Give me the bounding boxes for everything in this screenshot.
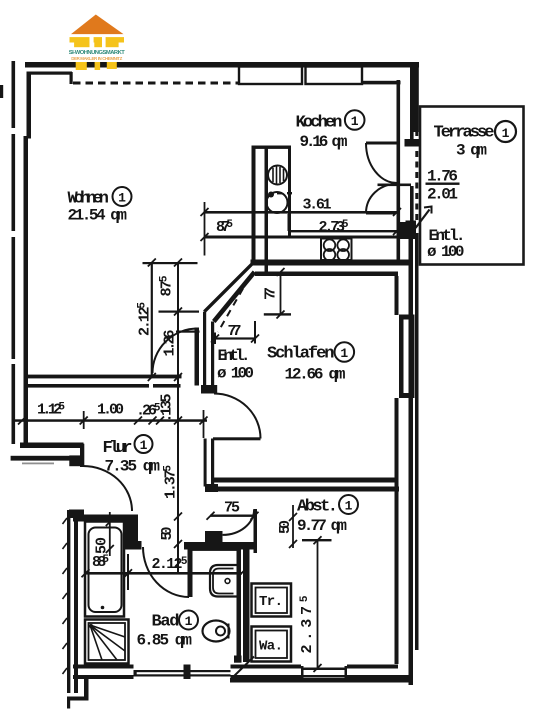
svg-text:9.16 qm: 9.16 qm [300, 133, 348, 151]
svg-text:Flur: Flur [103, 439, 133, 458]
svg-text:Wa.: Wa. [259, 639, 283, 655]
svg-text:Abst.: Abst. [297, 498, 338, 517]
svg-text:ø 100: ø 100 [217, 365, 254, 383]
svg-text:1.26: 1.26 [162, 330, 179, 357]
svg-text:2.125: 2.125 [137, 302, 154, 336]
svg-text:1.125: 1.125 [37, 402, 65, 419]
svg-text:50: 50 [277, 520, 294, 534]
svg-text:2.125: 2.125 [152, 556, 188, 573]
svg-text:50: 50 [94, 537, 111, 554]
svg-text:Kochen: Kochen [296, 114, 343, 133]
svg-text:75: 75 [224, 500, 240, 517]
svg-text:1: 1 [340, 346, 348, 361]
svg-text:77: 77 [228, 323, 242, 340]
svg-text:Entl.: Entl. [218, 347, 251, 365]
svg-text:3 qm: 3 qm [456, 142, 487, 160]
svg-text:SI-WOHNUNGSMARKT: SI-WOHNUNGSMARKT [69, 50, 125, 56]
svg-text:Tr.: Tr. [259, 594, 283, 610]
svg-text:2.735: 2.735 [319, 219, 349, 236]
svg-text:DER MAKLER IN CHEMNITZ: DER MAKLER IN CHEMNITZ [71, 56, 122, 61]
svg-text:2.01: 2.01 [427, 186, 458, 204]
svg-text:Bad: Bad [152, 613, 180, 632]
svg-text:9.77 qm: 9.77 qm [297, 517, 347, 535]
svg-text:1.375: 1.375 [163, 465, 180, 499]
svg-text:50: 50 [159, 527, 176, 541]
svg-text:21.54 qm: 21.54 qm [68, 207, 128, 225]
svg-text:7.35 qm: 7.35 qm [105, 458, 161, 476]
svg-text:77: 77 [263, 287, 280, 300]
svg-text:1.76: 1.76 [427, 168, 458, 186]
svg-text:1: 1 [140, 438, 148, 453]
svg-text:ø 100: ø 100 [427, 243, 465, 261]
svg-text:1: 1 [345, 499, 353, 514]
svg-text:Schlafen: Schlafen [267, 345, 335, 364]
svg-text:1.00: 1.00 [97, 402, 124, 419]
svg-text:.135: .135 [159, 394, 176, 423]
svg-text:1: 1 [185, 614, 193, 629]
svg-text:1: 1 [118, 191, 126, 206]
svg-text:3.61: 3.61 [303, 197, 332, 214]
svg-text:12.66 qm: 12.66 qm [285, 366, 346, 384]
svg-text:1: 1 [351, 114, 359, 129]
svg-text:6.85 qm: 6.85 qm [137, 632, 193, 650]
svg-text:Terrasse: Terrasse [434, 124, 495, 143]
svg-text:1: 1 [502, 126, 510, 141]
